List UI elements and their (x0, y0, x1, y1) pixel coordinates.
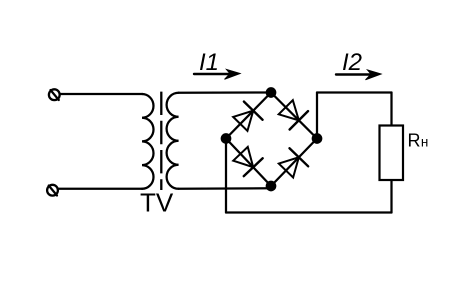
bridge edge bottom-right (271, 139, 317, 187)
node bottom (bridge) (266, 181, 277, 192)
diode VD4 (bottom-right arm) (279, 148, 308, 177)
wire bottom rail up to resistor (390, 180, 392, 213)
node right (bridge) (312, 133, 323, 144)
svg-text:Rн: Rн (408, 130, 429, 150)
node top (bridge) (266, 87, 277, 98)
current arrow I1 (194, 70, 240, 80)
wire secondary bottom to bridge bottom node (crosses vertical wire) (179, 187, 272, 190)
terminal X2 (bottom input) (47, 185, 58, 196)
wire left node down to bottom rail (225, 139, 227, 213)
wire right node up (316, 93, 318, 139)
bridge edge top-left (226, 93, 271, 139)
terminal X1 (top input) (49, 89, 60, 100)
wire bottom input (58, 188, 142, 190)
diode VD3 (bottom-left arm) (233, 147, 262, 176)
diode VD2 (top-right arm) (279, 100, 308, 129)
svg-text:TV: TV (140, 188, 174, 218)
transformer TV secondary winding (167, 93, 179, 189)
wire down to resistor top (390, 93, 392, 126)
current arrow I2 (336, 70, 381, 80)
bridge edge top-right (271, 93, 317, 139)
bridge edge bottom-left (226, 139, 271, 187)
svg-text:I1: I1 (199, 49, 219, 76)
wire top input (60, 93, 142, 95)
transformer TV core (dashed) (160, 92, 162, 190)
wire secondary top to bridge top node (179, 91, 268, 94)
resistor Rn body (380, 126, 404, 181)
node left (bridge) (221, 133, 232, 144)
svg-text:I2: I2 (342, 49, 362, 76)
wire bottom rail (226, 211, 392, 213)
diode VD1 (top-left arm) (233, 102, 262, 131)
wire top rail to resistor (317, 91, 392, 93)
transformer TV primary winding (142, 94, 154, 189)
